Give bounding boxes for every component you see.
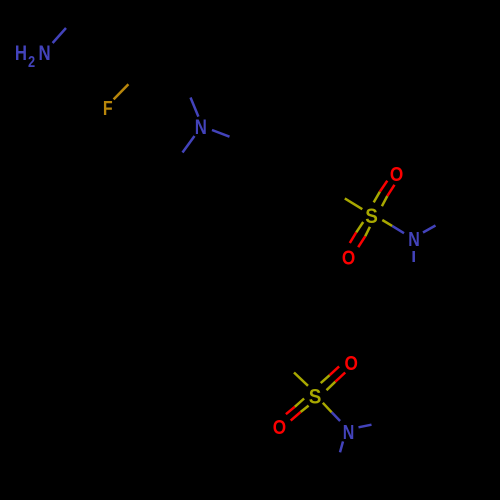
bond N2-CH3 up-right <box>423 226 436 233</box>
svg-text:N: N <box>39 42 51 65</box>
svg-text:N: N <box>408 228 420 250</box>
bond N2-CH3 down <box>412 251 415 262</box>
bond S2=O4 line1 <box>286 399 304 415</box>
bond S2=O3 line2 <box>327 373 346 391</box>
svg-text:O: O <box>345 352 358 375</box>
bond Nring-C right <box>212 130 230 137</box>
bond N3-CH3 right <box>359 425 372 428</box>
svg-text:F: F <box>103 98 113 120</box>
svg-text:2: 2 <box>28 54 35 72</box>
bond N1-C (amine CH2) <box>53 28 66 43</box>
bond N3-CH3 down-left <box>340 441 343 452</box>
bond S2-C aryl <box>294 373 308 386</box>
bond S1=O1 line1 <box>374 181 388 203</box>
bond S1-N2 <box>382 220 404 233</box>
svg-text:O: O <box>273 416 286 439</box>
svg-text:N: N <box>195 117 207 140</box>
svg-text:S: S <box>309 386 322 409</box>
svg-text:O: O <box>342 246 355 269</box>
svg-text:S: S <box>365 205 378 228</box>
bond F1-C <box>114 84 129 99</box>
svg-text:N: N <box>343 421 355 443</box>
bond S2=O3 line1 <box>321 366 339 383</box>
bond S1=O2 line2 <box>358 227 370 247</box>
svg-text:O: O <box>390 163 403 186</box>
bond Nring-C down-left <box>183 136 195 153</box>
bond Nring-C up <box>191 98 199 117</box>
bond S1-C aryl <box>345 198 363 209</box>
bond S2-N3 <box>323 403 340 421</box>
svg-text:H: H <box>15 42 27 65</box>
atom N1 amine label H2N <box>15 42 51 71</box>
bond S1=O2 line1 <box>350 222 363 243</box>
bond S1=O1 line2 <box>382 185 395 206</box>
bond S2=O4 line2 <box>291 406 309 421</box>
